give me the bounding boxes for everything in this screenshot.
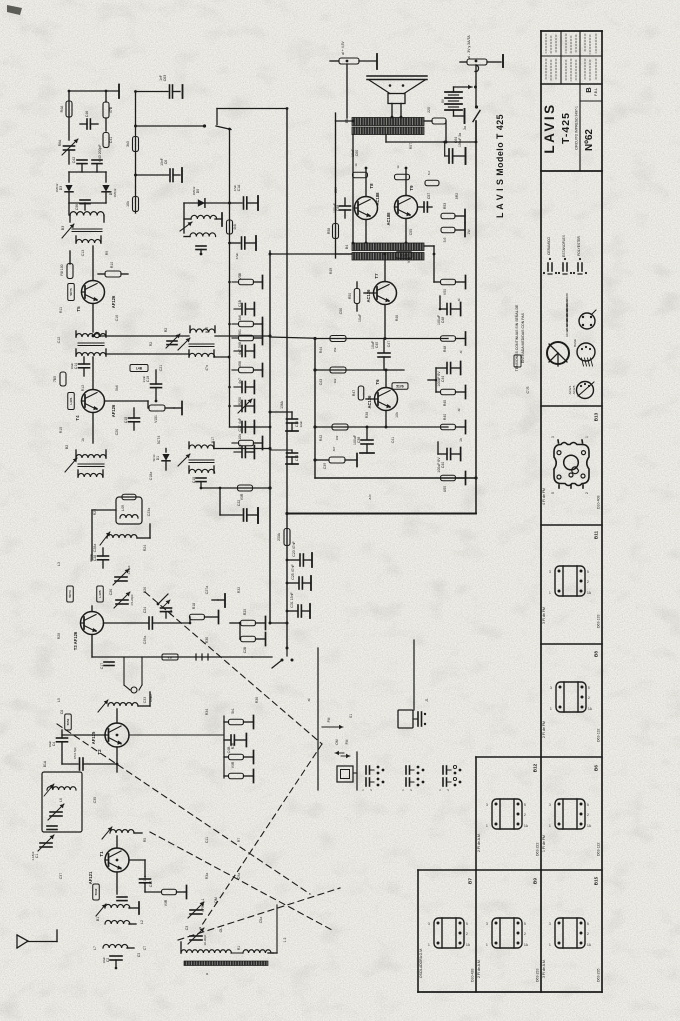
svg-text:FM: FM bbox=[327, 717, 331, 722]
svg-text:B: B bbox=[584, 87, 593, 93]
svg-text:uF822-1: uF822-1 bbox=[201, 898, 205, 911]
svg-text:C57: C57 bbox=[427, 193, 431, 199]
volume control wire bbox=[270, 622, 287, 624]
svg-text:V0R: V0R bbox=[231, 761, 235, 768]
capacitor C42 C43 bbox=[77, 159, 87, 161]
svg-text:C8: C8 bbox=[60, 710, 64, 714]
output transformer primary bbox=[352, 118, 424, 126]
svg-text:R32: R32 bbox=[237, 587, 241, 593]
battery feed wire bbox=[454, 86, 473, 88]
svg-text:T8: T8 bbox=[369, 183, 374, 189]
capacitor C19 bbox=[151, 383, 162, 385]
grid left column bbox=[417, 870, 419, 992]
electrolytic C28 bbox=[98, 555, 109, 557]
wire rod to osc bbox=[180, 942, 182, 953]
resistor R5C bbox=[103, 133, 109, 148]
IF can B15 bbox=[549, 918, 592, 948]
svg-text:C18a: C18a bbox=[149, 472, 153, 480]
svg-text:L2: L2 bbox=[140, 920, 144, 924]
svg-text:R42: R42 bbox=[319, 435, 323, 441]
svg-text:1: 1 bbox=[585, 436, 589, 438]
svg-text:C27a: C27a bbox=[205, 586, 209, 594]
svg-text:C43: C43 bbox=[319, 379, 323, 385]
svg-text:R30: R30 bbox=[205, 637, 209, 643]
transistor T2 AF125 bbox=[105, 723, 129, 747]
svg-text:C63: C63 bbox=[163, 75, 167, 81]
svg-text:D3: D3 bbox=[59, 186, 63, 190]
capacitor C1A + terminal bbox=[243, 197, 245, 209]
svg-text:R58: R58 bbox=[327, 228, 331, 234]
resistor R18 bbox=[190, 614, 205, 620]
svg-text:al: al bbox=[457, 408, 461, 411]
svg-text:10k: 10k bbox=[335, 435, 339, 440]
svg-text:R1: R1 bbox=[237, 946, 241, 951]
aerial bbox=[17, 935, 28, 948]
IF4 coils bbox=[76, 455, 106, 458]
middle column caps C23 C25 C31 bbox=[285, 512, 288, 515]
svg-text:1k: 1k bbox=[81, 438, 85, 442]
IF can B7 bbox=[428, 918, 471, 948]
resistor R39 bbox=[332, 424, 348, 430]
svg-text:47uF: 47uF bbox=[233, 184, 237, 191]
resistor R10 bbox=[105, 271, 121, 277]
svg-text:R34: R34 bbox=[205, 709, 209, 715]
svg-text:L1V1: L1V1 bbox=[69, 397, 73, 405]
svg-text:15k: 15k bbox=[333, 347, 337, 352]
tick marks bbox=[195, 654, 197, 660]
bus V3 bbox=[229, 130, 231, 428]
wire bbox=[475, 121, 477, 142]
boxed label L1V1 bbox=[68, 393, 75, 410]
trimmer R6 bbox=[64, 145, 75, 147]
resistor V50 bbox=[434, 281, 440, 283]
resistor 8R2 bbox=[425, 180, 439, 186]
column bottom bbox=[418, 991, 602, 993]
svg-text:5CT4: 5CT4 bbox=[157, 436, 161, 445]
svg-text:C26: C26 bbox=[109, 589, 113, 595]
loudspeaker bbox=[367, 75, 427, 77]
svg-text:B1A: B1A bbox=[43, 760, 47, 767]
svg-text:10-30pF: 10-30pF bbox=[203, 934, 207, 945]
svg-text:8R2: 8R2 bbox=[455, 193, 459, 199]
wires T5 bbox=[92, 246, 94, 281]
svg-text:AF121: AF121 bbox=[88, 871, 93, 884]
svg-text:L A V I S Modelo T 425: L A V I S Modelo T 425 bbox=[495, 114, 505, 218]
electrolytic C32 bbox=[270, 449, 292, 451]
ratio det transformer B-E bbox=[191, 215, 217, 219]
electrolytic C2 bbox=[110, 955, 122, 957]
svg-text:C23a: C23a bbox=[147, 508, 151, 516]
svg-text:C17: C17 bbox=[100, 663, 104, 669]
svg-text:R10: R10 bbox=[110, 262, 114, 268]
electrolytic C38 bbox=[366, 427, 368, 439]
svg-text:10k: 10k bbox=[126, 201, 130, 207]
svg-text:ENTRADA MEDIDAS CON PAS: ENTRADA MEDIDAS CON PAS bbox=[521, 312, 525, 363]
wire driver feed bbox=[352, 135, 354, 244]
svg-text:L4B: L4B bbox=[136, 366, 143, 370]
svg-text:1nF: 1nF bbox=[159, 75, 163, 81]
padder trimmer C3 bbox=[190, 935, 202, 937]
svg-text:C14: C14 bbox=[74, 363, 78, 369]
svg-text:C60: C60 bbox=[355, 150, 359, 156]
svg-text:R26: R26 bbox=[143, 587, 147, 593]
svg-text:3: 3 bbox=[551, 436, 555, 438]
svg-text:4n7: 4n7 bbox=[238, 378, 242, 384]
svg-text:CIRCUITO IMPRESO 3497-1: CIRCUITO IMPRESO 3497-1 bbox=[575, 106, 579, 150]
svg-text:C47: C47 bbox=[387, 341, 391, 347]
svg-text:1k2: 1k2 bbox=[333, 378, 337, 383]
IF can B12 bbox=[486, 799, 529, 829]
svg-text:al: al bbox=[457, 298, 461, 301]
svg-text:220: 220 bbox=[427, 107, 431, 113]
driver transformer primary bbox=[352, 243, 424, 251]
resistor R4A bbox=[66, 101, 72, 117]
svg-text:V0R: V0R bbox=[164, 899, 168, 906]
svg-text:R2: R2 bbox=[149, 342, 153, 347]
transistor T3 AF126 bbox=[81, 612, 104, 635]
svg-text:V17: V17 bbox=[167, 655, 173, 659]
svg-text:BASE: BASE bbox=[573, 339, 577, 347]
svg-text:C48: C48 bbox=[441, 317, 445, 323]
svg-text:C20: C20 bbox=[115, 429, 119, 435]
AF takeoff wire bbox=[201, 487, 270, 489]
wires T6 bbox=[385, 370, 387, 388]
tuning gang dashed link down-left bbox=[200, 744, 322, 928]
svg-text:2 FI de A.M.: 2 FI de A.M. bbox=[477, 833, 481, 852]
svg-text:51V3: 51V3 bbox=[400, 253, 408, 257]
svg-text:5052: 5052 bbox=[66, 718, 70, 725]
svg-text:C10a: C10a bbox=[143, 876, 147, 884]
capacitor C22 bbox=[243, 509, 245, 521]
boxed label L1V5 bbox=[97, 586, 104, 602]
capacitor C57 bbox=[423, 202, 425, 212]
svg-text:R50: R50 bbox=[348, 293, 352, 299]
trimmer C26 bbox=[116, 599, 128, 601]
svg-text:R46: R46 bbox=[395, 315, 399, 321]
ratio detector coils bbox=[190, 329, 215, 333]
wire bbox=[116, 709, 118, 723]
resistor R14 bbox=[149, 405, 165, 411]
capacitor C56 bbox=[69, 202, 106, 204]
ink blot top-left bbox=[7, 5, 22, 15]
svg-text:4-18pF: 4-18pF bbox=[31, 851, 35, 861]
wires T8/T9 bbox=[365, 168, 367, 197]
resistor R3 bbox=[162, 889, 177, 895]
electrolytic C47 bbox=[230, 735, 232, 745]
diode D5 wire bbox=[184, 202, 242, 204]
svg-text:C33: C33 bbox=[143, 697, 147, 703]
transistor pinout top view bbox=[579, 313, 595, 329]
driver transformer secondary bbox=[352, 253, 424, 261]
svg-text:R7: R7 bbox=[237, 838, 241, 843]
svg-text:D5: D5 bbox=[196, 189, 200, 193]
svg-text:C24: C24 bbox=[143, 607, 147, 613]
svg-text:D63-235: D63-235 bbox=[597, 969, 601, 982]
diode D1 bbox=[165, 449, 167, 453]
trimmer C1 bbox=[40, 842, 52, 844]
svg-text:C3: C3 bbox=[185, 926, 189, 931]
svg-text:D10-408: D10-408 bbox=[597, 496, 601, 509]
svg-text:Nº62: Nº62 bbox=[584, 129, 595, 151]
svg-text:C4B: C4B bbox=[227, 746, 231, 753]
IF3 primary coil bbox=[76, 334, 106, 337]
4n7 3V8 bbox=[234, 350, 242, 352]
svg-text:FM: FM bbox=[345, 739, 349, 744]
svg-text:10k: 10k bbox=[238, 434, 242, 440]
4k6 bbox=[232, 323, 238, 325]
electrolytic C30 bbox=[291, 412, 293, 418]
svg-text:R40: R40 bbox=[443, 414, 447, 420]
svg-text:T4: T4 bbox=[75, 415, 80, 421]
svg-text:1k: 1k bbox=[459, 438, 463, 442]
svg-text:L7: L7 bbox=[93, 946, 97, 950]
svg-text:22uF: 22uF bbox=[299, 420, 303, 427]
tuning gang dashed link 2 bbox=[57, 724, 310, 894]
trimmer R2 bbox=[167, 340, 177, 342]
svg-text:5CT5: 5CT5 bbox=[69, 288, 73, 296]
output transformer secondary bbox=[352, 127, 424, 135]
main right bus bbox=[475, 121, 477, 514]
svg-text:R47: R47 bbox=[352, 390, 356, 396]
svg-text:R24: R24 bbox=[143, 545, 147, 551]
svg-text:D63-222: D63-222 bbox=[536, 843, 540, 856]
resistor R13 bbox=[60, 372, 66, 386]
left supply rail bbox=[335, 113, 337, 258]
boxed label 5CT5 bbox=[68, 284, 75, 301]
svg-text:47B: 47B bbox=[109, 106, 113, 113]
svg-text:C55: C55 bbox=[409, 229, 413, 235]
svg-text:R8 100: R8 100 bbox=[60, 264, 64, 275]
svg-text:10uF: 10uF bbox=[48, 740, 52, 747]
svg-text:R3a: R3a bbox=[205, 873, 209, 879]
wire bbox=[445, 121, 447, 142]
svg-text:4k6: 4k6 bbox=[238, 315, 242, 321]
svg-text:R45: R45 bbox=[443, 400, 447, 406]
svg-text:F.B.L: F.B.L bbox=[594, 88, 598, 96]
svg-text:C35: C35 bbox=[93, 797, 97, 803]
svg-text:C15: C15 bbox=[124, 417, 128, 423]
svg-text:B6: B6 bbox=[594, 765, 599, 771]
resistor V0R bbox=[238, 485, 253, 491]
svg-text:R48: R48 bbox=[443, 346, 447, 352]
svg-text:AC188: AC188 bbox=[386, 212, 391, 226]
svg-text:B13: B13 bbox=[594, 412, 599, 421]
svg-text:a: a bbox=[205, 973, 209, 975]
svg-text:1N542: 1N542 bbox=[113, 188, 117, 197]
resistor R58 bbox=[333, 224, 339, 239]
svg-text:AF126: AF126 bbox=[111, 404, 116, 417]
wire IF out bbox=[230, 426, 271, 428]
wire det to AF bbox=[270, 337, 315, 338]
svg-text:L1V5: L1V5 bbox=[98, 590, 102, 598]
svg-text:7B5: 7B5 bbox=[53, 376, 57, 382]
svg-text:2 FI de FM: 2 FI de FM bbox=[542, 721, 546, 738]
svg-text:OSCILADORA O.M.: OSCILADORA O.M. bbox=[419, 948, 423, 978]
svg-text:D63-133: D63-133 bbox=[597, 615, 601, 628]
svg-text:100uF 6V: 100uF 6V bbox=[437, 371, 441, 387]
svg-text:10k: 10k bbox=[395, 412, 399, 418]
svg-text:R44: R44 bbox=[319, 347, 323, 353]
svg-text:D63-132: D63-132 bbox=[597, 729, 601, 742]
svg-text:C2B: C2B bbox=[243, 646, 247, 653]
collector network T1 bbox=[129, 859, 145, 861]
resistor R40 bbox=[441, 424, 456, 430]
svg-text:CERAMICO: CERAMICO bbox=[547, 237, 551, 255]
wire bbox=[475, 65, 477, 107]
svg-text:1 FI de FM: 1 FI de FM bbox=[542, 835, 546, 852]
svg-text:5: 5 bbox=[551, 492, 555, 494]
svg-text:C59: C59 bbox=[334, 187, 338, 193]
left branch wire bbox=[68, 91, 70, 140]
svg-text:5.6: 5.6 bbox=[443, 238, 447, 243]
OM coil bbox=[103, 944, 128, 948]
capacitor C6 bbox=[136, 174, 169, 176]
svg-text:47uF: 47uF bbox=[235, 252, 239, 259]
svg-text:C17 4uF: C17 4uF bbox=[238, 418, 242, 431]
wire coil to bus bbox=[215, 335, 270, 337]
svg-text:a b: a b bbox=[368, 495, 372, 500]
svg-text:V30: V30 bbox=[407, 257, 411, 263]
svg-text:C4: C4 bbox=[52, 742, 56, 746]
svg-text:9V: 9V bbox=[441, 98, 445, 103]
earphone jack bbox=[92, 656, 252, 658]
IF can B11 bbox=[549, 566, 592, 596]
wire bbox=[219, 488, 221, 515]
svg-text:360pF: 360pF bbox=[89, 554, 93, 563]
svg-text:C1A: C1A bbox=[237, 184, 241, 191]
grid middle column bbox=[475, 757, 477, 992]
svg-text:R22: R22 bbox=[93, 509, 97, 515]
capacitor C5 bbox=[62, 763, 78, 765]
svg-text:10uF: 10uF bbox=[102, 956, 106, 963]
svg-text:4.5-20pF: 4.5-20pF bbox=[130, 594, 134, 606]
svg-text:L3: L3 bbox=[57, 562, 61, 566]
resistor on V3 bbox=[227, 220, 233, 234]
resistor R8 bbox=[67, 264, 73, 279]
svg-text:5k1: 5k1 bbox=[231, 708, 235, 714]
headphone jack output bbox=[413, 640, 415, 710]
capacitor C18 bbox=[196, 477, 206, 479]
svg-text:D63-233: D63-233 bbox=[536, 969, 540, 982]
tuning gang dashed link return bbox=[178, 888, 340, 940]
svg-text:D1: D1 bbox=[156, 456, 160, 460]
svg-text:C42: C42 bbox=[72, 157, 76, 163]
svg-text:R36: R36 bbox=[255, 697, 259, 703]
band coils below T1 bbox=[105, 904, 130, 908]
svg-text:R5: R5 bbox=[143, 838, 147, 843]
svg-text:B2: B2 bbox=[65, 445, 69, 449]
C17 4uF bbox=[234, 426, 242, 428]
capacitor C-det bbox=[196, 245, 206, 247]
svg-text:47n: 47n bbox=[205, 365, 209, 371]
svg-text:C41: C41 bbox=[391, 437, 395, 443]
tuning gang dashed link 1 bbox=[145, 592, 322, 744]
resistor R41 bbox=[330, 336, 346, 342]
svg-text:R61: R61 bbox=[238, 329, 242, 335]
electrolytic C48 bbox=[446, 304, 448, 315]
svg-text:C43 200pF: C43 200pF bbox=[98, 144, 102, 161]
electrolytic C45 bbox=[383, 339, 385, 353]
boxed label V17 bbox=[162, 654, 178, 660]
svg-text:C1B: C1B bbox=[238, 299, 242, 306]
data column border bbox=[540, 31, 542, 992]
svg-text:C37: C37 bbox=[59, 873, 63, 879]
capacitor C9 bbox=[117, 896, 127, 898]
svg-text:V50: V50 bbox=[443, 289, 447, 295]
svg-text:10uF: 10uF bbox=[70, 362, 74, 369]
svg-text:R28: R28 bbox=[57, 633, 61, 639]
wire bbox=[92, 509, 116, 511]
svg-text:C31 15nF: C31 15nF bbox=[290, 592, 294, 607]
svg-text:R57: R57 bbox=[409, 143, 413, 149]
svg-text:C6: C6 bbox=[164, 160, 168, 165]
svg-text:B17: B17 bbox=[211, 437, 215, 443]
svg-text:al: al bbox=[307, 698, 311, 701]
svg-text:al - 3V y 3A/TA: al - 3V y 3A/TA bbox=[467, 35, 471, 59]
svg-text:3 FI de A.M.: 3 FI de A.M. bbox=[542, 959, 546, 978]
IF can B8 bbox=[550, 682, 593, 712]
svg-text:AC188: AC188 bbox=[375, 192, 380, 206]
svg-text:5CT3: 5CT3 bbox=[68, 590, 72, 598]
resistor R52 bbox=[353, 172, 368, 178]
svg-text:C22: C22 bbox=[237, 500, 241, 506]
svg-text:10uF: 10uF bbox=[351, 149, 355, 157]
capacitor C24 bbox=[148, 617, 150, 629]
svg-text:4k8: 4k8 bbox=[233, 224, 237, 230]
svg-text:T6: T6 bbox=[375, 379, 380, 385]
resistor R48 bbox=[441, 336, 456, 342]
svg-text:C°/5: C°/5 bbox=[526, 387, 530, 394]
terminal bars bbox=[218, 599, 224, 601]
svg-text:5k6: 5k6 bbox=[115, 385, 119, 391]
svg-text:AC126 AC188: AC126 AC188 bbox=[565, 318, 569, 337]
resistor ladder right of T2 bbox=[129, 734, 224, 736]
electrolytic C14 bbox=[79, 363, 90, 365]
bottom rail bbox=[287, 513, 477, 515]
FM tuning block bbox=[42, 772, 82, 832]
svg-text:4n7 3V8: 4n7 3V8 bbox=[238, 342, 242, 355]
svg-text:D10-428: D10-428 bbox=[471, 969, 475, 982]
AF left bus bbox=[314, 339, 316, 479]
resistor R47 bbox=[358, 386, 364, 400]
svg-text:C38: C38 bbox=[357, 437, 361, 443]
svg-text:C19: C19 bbox=[146, 376, 150, 382]
svg-text:C41: C41 bbox=[109, 137, 113, 143]
wire secondary return bbox=[385, 135, 387, 143]
IF can B9 bbox=[486, 918, 529, 948]
IF can B6 bbox=[549, 799, 592, 829]
svg-text:C45: C45 bbox=[375, 342, 379, 348]
svg-text:OND: OND bbox=[149, 694, 153, 702]
svg-text:230A: 230A bbox=[277, 532, 281, 541]
svg-text:100uF: 100uF bbox=[333, 203, 337, 213]
electrolytic C44 bbox=[446, 363, 448, 374]
svg-text:POLYESTER: POLYESTER bbox=[577, 236, 581, 256]
svg-text:SF14: SF14 bbox=[152, 454, 156, 461]
svg-text:R15: R15 bbox=[59, 427, 63, 433]
svg-text:C5a: C5a bbox=[259, 917, 263, 923]
C1B bbox=[234, 308, 242, 310]
svg-text:OM: OM bbox=[335, 739, 339, 745]
svg-text:AF125: AF125 bbox=[91, 731, 96, 744]
svg-text:C21: C21 bbox=[159, 365, 163, 371]
svg-text:R12: R12 bbox=[81, 385, 85, 391]
svg-text:B3: B3 bbox=[61, 226, 65, 230]
svg-text:V151: V151 bbox=[154, 415, 158, 423]
svg-text:B8: B8 bbox=[594, 651, 599, 657]
AF ground rail bbox=[315, 477, 476, 479]
svg-text:100uF 6V: 100uF 6V bbox=[437, 457, 441, 473]
